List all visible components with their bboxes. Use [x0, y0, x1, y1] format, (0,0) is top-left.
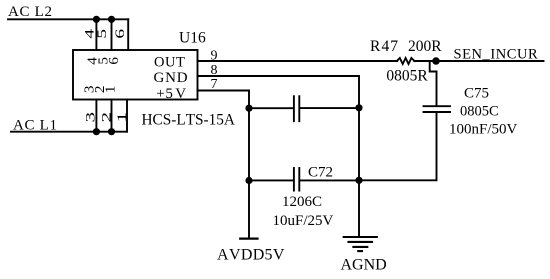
svg-text:C72: C72: [308, 165, 333, 181]
wire AC_L2 horizontal: [8, 18, 128, 20]
svg-text:+5V: +5V: [156, 86, 186, 102]
wire pin 6 top stub: [127, 19, 129, 50]
wire pin 9 OUT to R47: [198, 60, 398, 62]
wire pin 5 top stub: [111, 19, 113, 50]
svg-text:AC L2: AC L2: [8, 4, 53, 20]
wire AC_L1 horizontal: [11, 131, 127, 133]
svg-text:U16: U16: [179, 30, 206, 47]
bypass capacitor right plate (top cap): [298, 96, 300, 121]
svg-text:C75: C75: [464, 86, 489, 102]
svg-text:GND: GND: [154, 70, 189, 86]
wire pin 8 GND to ground rail: [198, 76, 360, 237]
bypass capacitor left wire (top cap): [249, 107, 293, 109]
svg-text:SEN_INCUR: SEN_INCUR: [454, 47, 539, 63]
wire pin 2 bottom stub: [111, 100, 113, 132]
svg-text:2: 2: [99, 112, 113, 123]
junction dot AC_L2/pin5: [108, 16, 115, 23]
wire C75 to AGND rail: [359, 113, 437, 181]
svg-text:AGND: AGND: [341, 257, 387, 274]
ground symbol AGND bar 2: [349, 241, 373, 243]
junction dot AC_L1/pin3: [93, 128, 100, 135]
svg-text:HCS-LTS-15A: HCS-LTS-15A: [142, 112, 235, 129]
capacitor C75 top plate: [424, 105, 451, 107]
resistor R47 zigzag: [397, 58, 415, 64]
svg-text:0805C: 0805C: [460, 104, 499, 120]
junction dot C72 right: [355, 177, 362, 184]
power rail bar AVDD5V: [240, 238, 257, 240]
svg-text:1: 1: [103, 86, 118, 94]
svg-text:R47: R47: [370, 38, 399, 55]
bypass capacitor right wire (top cap): [300, 107, 359, 109]
junction dot C72 left: [245, 177, 252, 184]
junction dot AC_L1/pin2: [108, 128, 115, 135]
junction dot R47 output node: [432, 57, 440, 65]
wire pin 4 top stub: [95, 19, 97, 50]
capacitor C72 left wire: [249, 179, 293, 181]
svg-text:10uF/25V: 10uF/25V: [273, 213, 334, 229]
svg-text:3: 3: [83, 112, 97, 123]
wire pin 3 bottom stub: [95, 100, 97, 132]
junction dot AC_L2/pin4: [93, 16, 100, 23]
svg-text:OUT: OUT: [154, 55, 185, 71]
junction dot top cap right: [355, 104, 362, 111]
svg-text:100nF/50V: 100nF/50V: [449, 122, 518, 138]
capacitor C72 right wire: [300, 179, 359, 181]
wire pin 7 +5V to AVDD5V rail: [198, 91, 250, 239]
wire pin 1 bottom stub: [126, 100, 128, 132]
svg-text:1: 1: [115, 112, 129, 123]
capacitor C72 right plate: [298, 168, 300, 191]
IC U16 body rectangle: [73, 50, 198, 100]
ground symbol AGND bar 3: [353, 246, 367, 248]
wire jog from node to C75: [430, 61, 437, 105]
junction dot top cap left: [245, 105, 252, 112]
svg-text:200R: 200R: [408, 38, 442, 55]
capacitor C72 left plate: [293, 168, 295, 191]
ground symbol AGND bar 4: [358, 250, 362, 252]
svg-text:0805R: 0805R: [386, 68, 428, 85]
wire R47 to SEN_INCUR: [414, 60, 543, 62]
bypass capacitor left plate (top cap): [293, 96, 295, 121]
svg-text:5: 5: [95, 29, 110, 39]
svg-text:1206C: 1206C: [282, 194, 322, 210]
svg-text:6: 6: [107, 57, 122, 65]
svg-text:6: 6: [113, 29, 128, 39]
ground symbol AGND bar 1: [344, 236, 377, 238]
capacitor C75 bottom plate: [424, 111, 451, 113]
